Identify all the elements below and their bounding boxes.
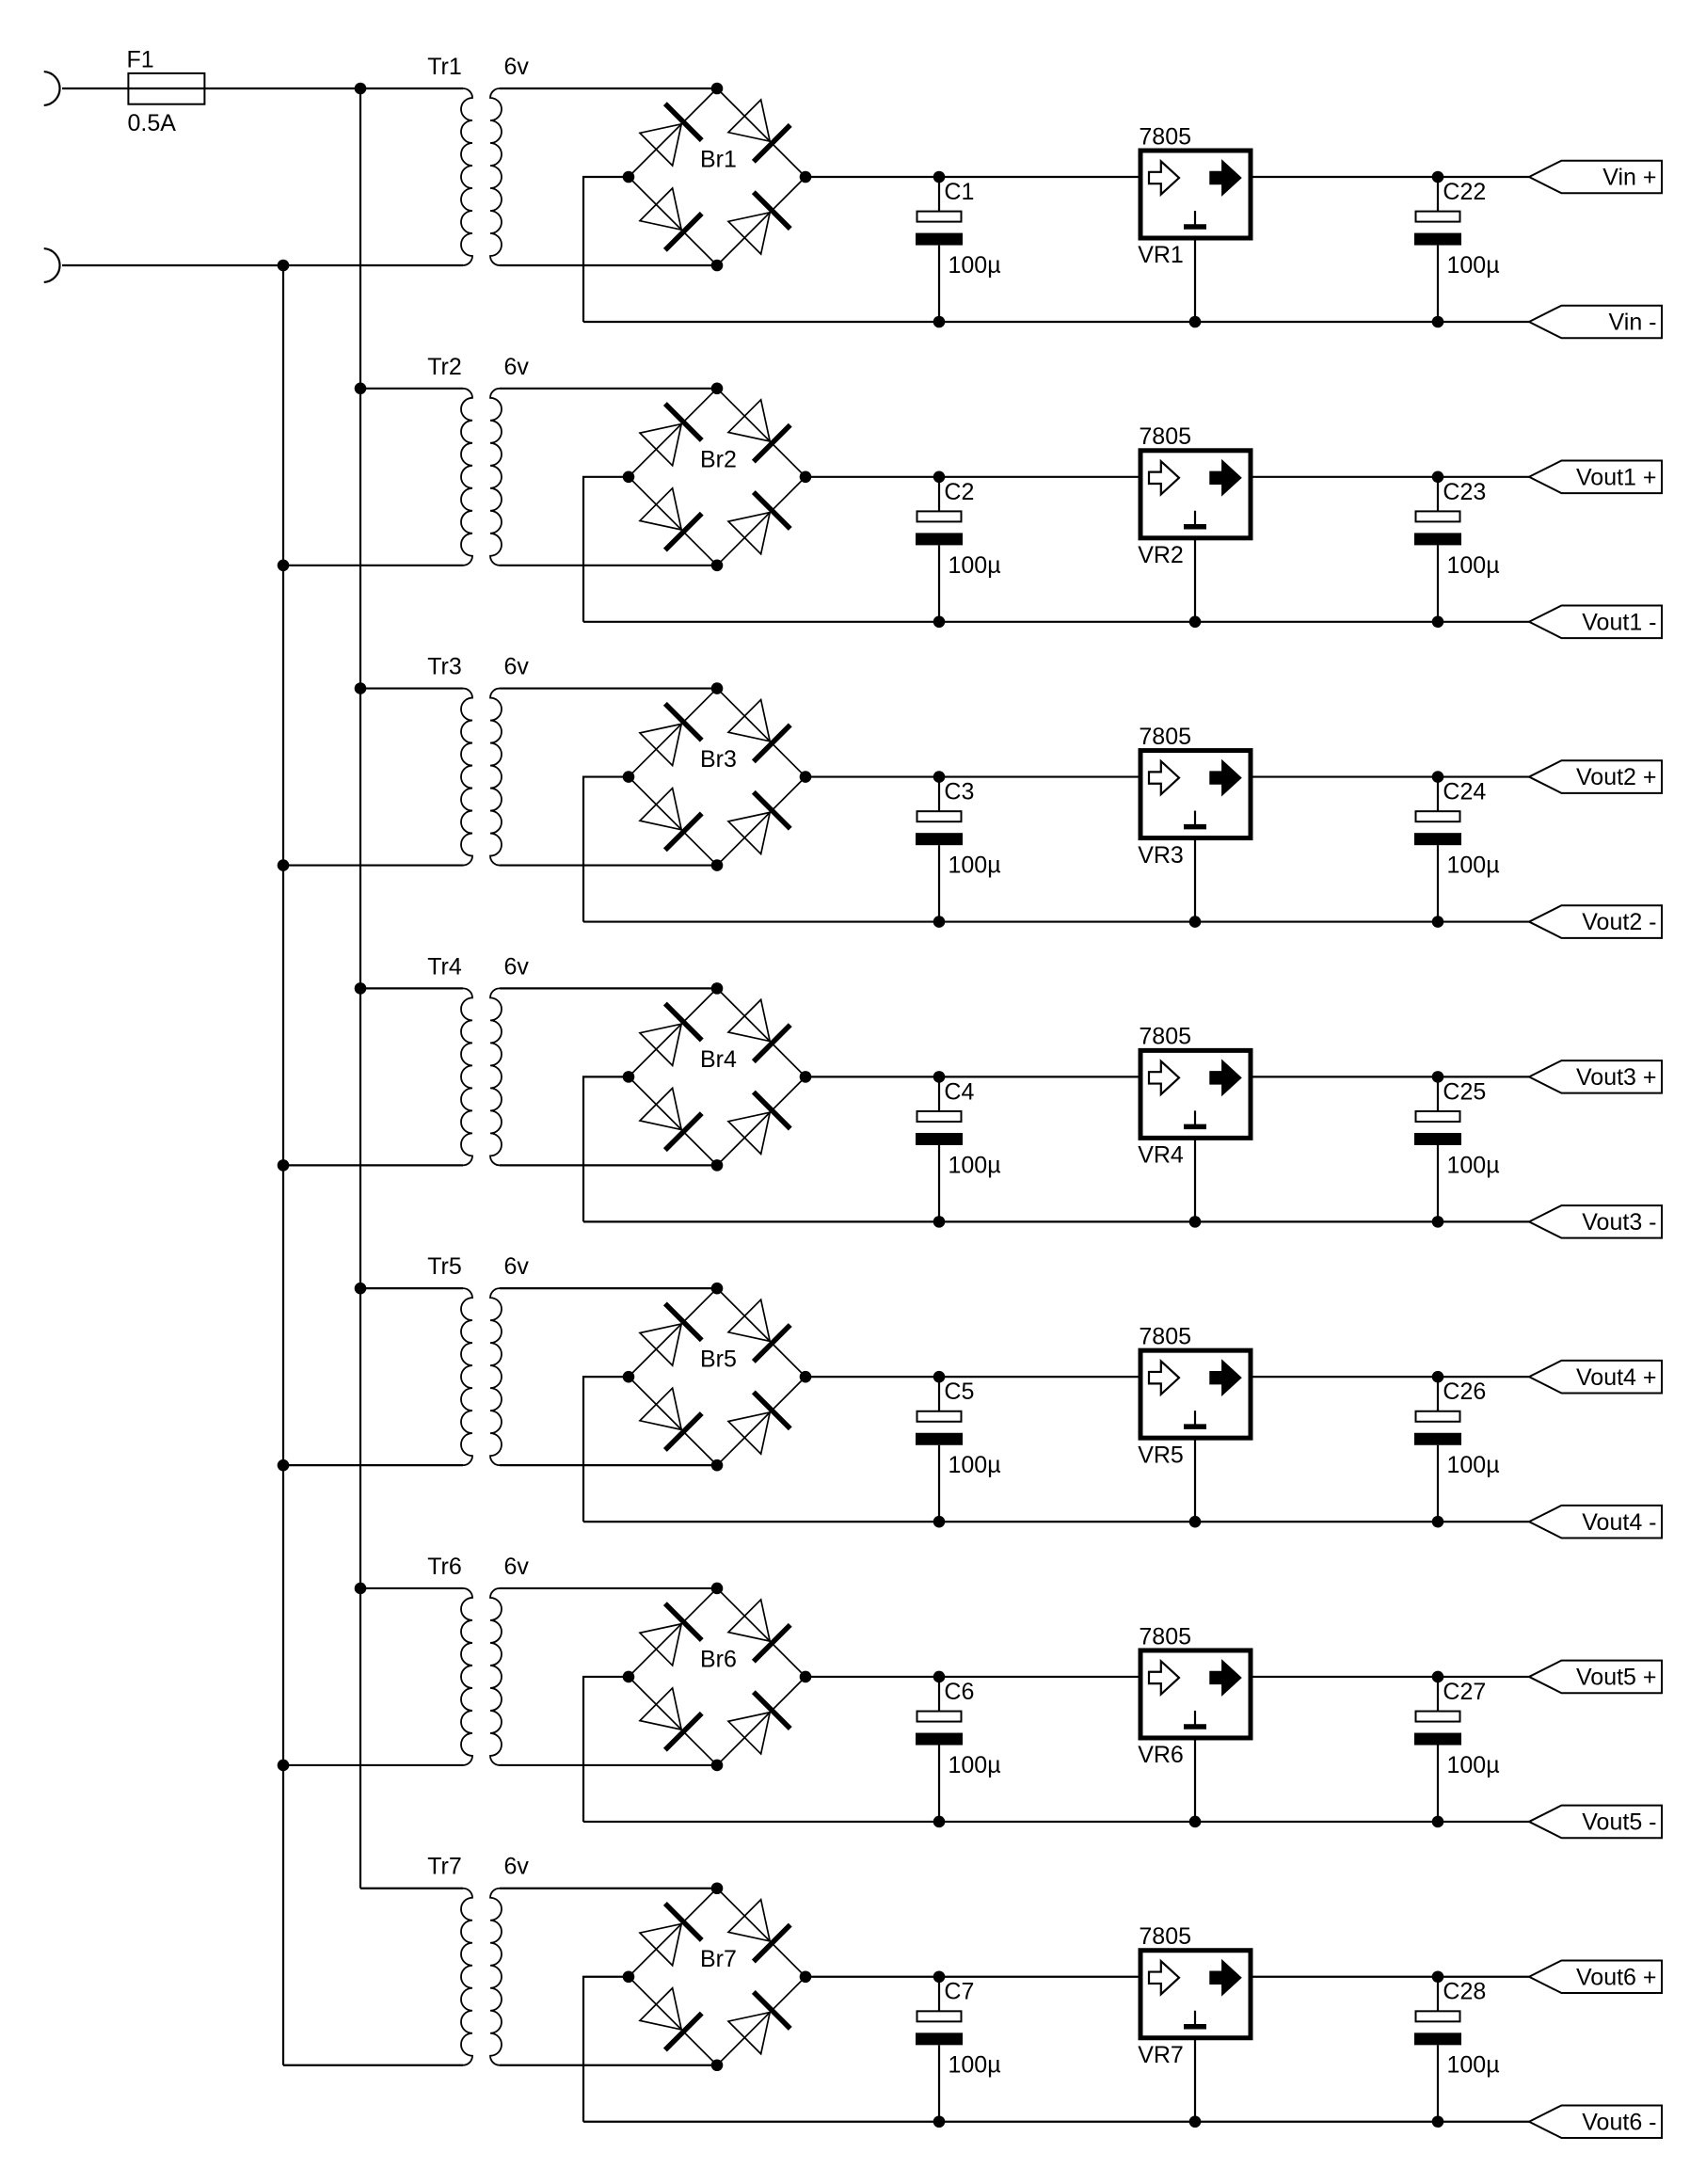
junction: C1 negative (933, 316, 946, 328)
svg-text:6v: 6v (504, 54, 530, 80)
junction: C25 negative (1432, 1216, 1444, 1228)
output terminal flag Vout2 + (1529, 760, 1662, 793)
wire: live input through fuse to Tr1 primary top (62, 88, 463, 89)
wire: DC+ rail from Br5 to regulator VR5 (805, 1376, 1141, 1378)
wire: Tr4 secondary top to bridge Br4 AC top (500, 987, 717, 989)
junction: bridge Br3 AC top (711, 682, 724, 694)
wire: Tr2 secondary bottom to bridge Br2 AC bottom (500, 565, 717, 566)
junction: bridge Br2 DC- (623, 470, 635, 483)
svg-text:Vin +: Vin + (1602, 165, 1656, 191)
svg-text:C25: C25 (1443, 1078, 1486, 1105)
voltage regulator VR5 7805 (1140, 1350, 1251, 1522)
svg-text:6v: 6v (504, 654, 530, 680)
diode Br6 bottom-left (638, 1686, 702, 1750)
junction: C7 negative (933, 2115, 946, 2128)
wire: bridge Br3 DC- down to negative rail (583, 777, 629, 922)
wire: bus to Tr4 primary bottom (283, 1164, 463, 1166)
output terminal flag Vout1 + (1529, 460, 1662, 493)
junction: C4 negative (933, 1216, 946, 1228)
bridge rectifier Br7 diamond (629, 1889, 805, 2065)
svg-text:C26: C26 (1443, 1379, 1486, 1405)
transformer Tr1 secondary winding (490, 88, 502, 265)
capacitor C27 (1414, 1677, 1461, 1822)
svg-text:Vout4 +: Vout4 + (1576, 1364, 1657, 1391)
svg-text:Tr2: Tr2 (427, 354, 462, 380)
junction: live bus / Tr3 primary top (355, 682, 367, 694)
transformer Tr5 primary winding (461, 1288, 472, 1465)
capacitor C23 (1414, 477, 1461, 622)
wire: DC+ rail from Br1 to regulator VR1 (805, 176, 1141, 178)
wire: regulator VR2 output rail (1251, 476, 1529, 478)
junction: C6 negative (933, 1816, 946, 1828)
wire: bus to Tr5 primary bottom (283, 1464, 463, 1466)
junction: C2 negative (933, 615, 946, 628)
transformer Tr2 primary winding (461, 389, 472, 566)
bridge rectifier Br2 diamond (629, 389, 805, 566)
junction: C1 positive (933, 171, 946, 183)
junction: C24 negative (1432, 916, 1444, 928)
wire: DC+ rail from Br3 to regulator VR3 (805, 775, 1141, 777)
svg-text:Br7: Br7 (700, 1946, 737, 1972)
wire: bridge Br4 DC- down to negative rail (583, 1076, 629, 1221)
svg-text:C1: C1 (944, 179, 974, 205)
transformer Tr2 secondary winding (490, 389, 502, 566)
diode Br6 top-right (726, 1598, 790, 1662)
junction: bridge Br6 AC bottom (711, 1760, 724, 1772)
junction: VR3 ground to negative rail (1189, 916, 1202, 928)
junction: live bus / Tr6 primary top (355, 1583, 367, 1595)
diode Br3 bottom-left (638, 786, 702, 850)
diode Br6 top-left (638, 1603, 702, 1667)
wire: Tr3 secondary top to bridge Br3 AC top (500, 687, 717, 689)
svg-text:Vout6 +: Vout6 + (1576, 1964, 1657, 1990)
wire: bridge Br6 DC- down to negative rail (583, 1677, 629, 1822)
output terminal flag Vout1 - (1529, 605, 1662, 638)
junction: C28 negative (1432, 2115, 1444, 2128)
junction: bridge Br7 DC- (623, 1970, 635, 1983)
svg-text:C28: C28 (1443, 1979, 1486, 2005)
junction: VR1 ground to negative rail (1189, 316, 1202, 328)
wire: bridge Br5 DC- down to negative rail (583, 1377, 629, 1522)
junction: bridge Br5 AC top (711, 1283, 724, 1295)
capacitor C6 (916, 1677, 963, 1822)
svg-text:VR6: VR6 (1138, 1742, 1184, 1768)
junction: VR6 ground to negative rail (1189, 1816, 1202, 1828)
junction: C23 negative (1432, 615, 1444, 628)
junction: bridge Br6 DC- (623, 1671, 635, 1683)
diode Br5 top-right (726, 1298, 790, 1362)
output terminal flag Vout6 - (1529, 2105, 1662, 2138)
diode Br1 bottom-right (726, 192, 790, 256)
svg-text:Vout2 -: Vout2 - (1582, 909, 1656, 935)
output terminal flag Vout5 + (1529, 1661, 1662, 1694)
wire: negative rail of channel 2 (583, 621, 1529, 623)
svg-text:VR4: VR4 (1138, 1142, 1184, 1169)
svg-text:C2: C2 (944, 479, 974, 505)
diode Br3 top-right (726, 697, 790, 761)
junction: C5 negative (933, 1516, 946, 1528)
diode Br7 top-right (726, 1898, 790, 1962)
diode Br4 bottom-right (726, 1092, 790, 1156)
voltage regulator VR4 7805 (1140, 1050, 1251, 1221)
junction: bridge Br7 AC top (711, 1882, 724, 1894)
diode Br3 bottom-right (726, 792, 790, 856)
transformer Tr6 secondary winding (490, 1588, 502, 1765)
svg-text:Tr1: Tr1 (427, 54, 462, 80)
wire: bridge Br1 DC- down to negative rail (583, 177, 629, 322)
svg-text:6v: 6v (504, 354, 530, 380)
wire: neutral vertical bus x=301 feeding all transformer primaries (282, 265, 284, 2065)
svg-text:C24: C24 (1443, 779, 1486, 805)
svg-text:7805: 7805 (1139, 123, 1191, 150)
output terminal flag Vout5 - (1529, 1806, 1662, 1839)
junction: C22 positive (1432, 171, 1444, 183)
capacitor C2 (916, 477, 963, 622)
transformer Tr6 primary winding (461, 1588, 472, 1765)
junction: live bus / Tr1 primary top (355, 83, 367, 95)
capacitor C22 (1414, 177, 1461, 322)
junction: neutral bus / Tr5 primary bottom (278, 1459, 290, 1472)
wire: negative rail of channel 4 (583, 1220, 1529, 1222)
svg-text:100µ: 100µ (1447, 252, 1500, 279)
wire: Tr1 secondary bottom to bridge Br1 AC bottom (500, 264, 717, 266)
output terminal flag Vout3 + (1529, 1060, 1662, 1093)
diode Br7 bottom-left (638, 1986, 702, 2050)
svg-text:C22: C22 (1443, 179, 1486, 205)
junction: bridge Br1 AC bottom (711, 260, 724, 272)
diode Br6 bottom-right (726, 1692, 790, 1756)
wire: live vertical bus x=383 feeding all transformer primaries (359, 88, 361, 1889)
svg-text:Br5: Br5 (700, 1347, 737, 1373)
junction: bridge Br5 AC bottom (711, 1459, 724, 1472)
wire: Tr3 secondary bottom to bridge Br3 AC bottom (500, 864, 717, 866)
junction: bridge Br2 DC+ (800, 470, 812, 483)
svg-text:100µ: 100µ (1447, 1752, 1500, 1778)
svg-text:7805: 7805 (1139, 1323, 1191, 1349)
wire: bus to Tr3 primary top (360, 687, 463, 689)
junction: bridge Br6 AC top (711, 1583, 724, 1595)
junction: C2 positive (933, 470, 946, 483)
svg-text:C4: C4 (944, 1078, 974, 1105)
voltage regulator VR2 7805 (1140, 451, 1251, 622)
wire: Tr6 secondary top to bridge Br6 AC top (500, 1587, 717, 1589)
junction: C7 positive (933, 1970, 946, 1983)
svg-text:Br4: Br4 (700, 1046, 737, 1073)
svg-text:Br1: Br1 (700, 147, 737, 173)
svg-text:Tr7: Tr7 (427, 1854, 462, 1880)
transformer Tr3 primary winding (461, 689, 472, 866)
svg-text:Vout3 +: Vout3 + (1576, 1064, 1657, 1091)
svg-text:7805: 7805 (1139, 1923, 1191, 1950)
bridge rectifier Br3 diamond (629, 689, 805, 866)
svg-text:Vout1 -: Vout1 - (1582, 609, 1656, 635)
wire: DC+ rail from Br4 to regulator VR4 (805, 1076, 1141, 1077)
wire: neutral input to Tr1 primary bottom (62, 264, 463, 266)
svg-text:7805: 7805 (1139, 1623, 1191, 1650)
svg-text:VR5: VR5 (1138, 1442, 1184, 1468)
svg-text:F1: F1 (127, 47, 154, 73)
voltage regulator VR7 7805 (1140, 1951, 1251, 2122)
svg-text:C5: C5 (944, 1379, 974, 1405)
junction: C28 positive (1432, 1970, 1444, 1983)
capacitor C25 (1414, 1076, 1461, 1221)
wire: DC+ rail from Br6 to regulator VR6 (805, 1676, 1141, 1678)
wire: regulator VR1 output rail (1251, 176, 1529, 178)
junction: C3 positive (933, 771, 946, 783)
svg-text:7805: 7805 (1139, 423, 1191, 450)
output terminal flag Vin - (1529, 306, 1662, 339)
wire: Tr5 secondary top to bridge Br5 AC top (500, 1287, 717, 1289)
diode Br2 bottom-left (638, 486, 702, 550)
fuse F1 (128, 73, 204, 104)
svg-text:100µ: 100µ (949, 1452, 1001, 1478)
wire: bus to Tr6 primary bottom (283, 1764, 463, 1766)
svg-text:7805: 7805 (1139, 724, 1191, 750)
junction: neutral bus / Tr2 primary bottom (278, 559, 290, 571)
junction: bridge Br3 DC- (623, 771, 635, 783)
output terminal flag Vout4 - (1529, 1506, 1662, 1538)
junction: bridge Br1 AC top (711, 83, 724, 95)
voltage regulator VR3 7805 (1140, 751, 1251, 922)
svg-text:100µ: 100µ (1447, 552, 1500, 579)
svg-text:100µ: 100µ (949, 1752, 1001, 1778)
diode Br3 top-left (638, 704, 702, 768)
svg-text:6v: 6v (504, 953, 530, 980)
svg-text:Tr5: Tr5 (427, 1253, 462, 1280)
svg-text:6v: 6v (504, 1554, 530, 1580)
AC input terminal (neutral) (44, 248, 60, 282)
junction: bridge Br7 AC bottom (711, 2059, 724, 2071)
svg-text:C6: C6 (944, 1679, 974, 1705)
junction: bridge Br1 DC+ (800, 171, 812, 183)
junction: neutral bus / Tr3 primary bottom (278, 859, 290, 871)
diode Br5 bottom-right (726, 1392, 790, 1456)
bridge rectifier Br6 diamond (629, 1588, 805, 1765)
transformer Tr7 secondary winding (490, 1889, 502, 2065)
wire: bus to Tr5 primary top (360, 1287, 463, 1289)
junction: live bus / Tr2 primary top (355, 382, 367, 394)
bridge rectifier Br4 diamond (629, 988, 805, 1165)
capacitor C7 (916, 1977, 963, 2122)
junction: C22 negative (1432, 316, 1444, 328)
capacitor C3 (916, 777, 963, 922)
diode Br1 top-right (726, 98, 790, 162)
junction: VR5 ground to negative rail (1189, 1516, 1202, 1528)
junction: bridge Br1 DC- (623, 171, 635, 183)
diode Br4 top-right (726, 997, 790, 1061)
wire: negative rail of channel 5 (583, 1521, 1529, 1522)
capacitor C4 (916, 1076, 963, 1221)
svg-text:Vout4 -: Vout4 - (1582, 1509, 1656, 1536)
junction: bridge Br2 AC bottom (711, 559, 724, 571)
diode Br2 bottom-right (726, 492, 790, 556)
wire: negative rail of channel 3 (583, 920, 1529, 922)
junction: VR4 ground to negative rail (1189, 1216, 1202, 1228)
transformer Tr4 primary winding (461, 988, 472, 1165)
capacitor C1 (916, 177, 963, 322)
capacitor C28 (1414, 1977, 1461, 2122)
wire: negative rail of channel 1 (583, 321, 1529, 323)
junction: C25 positive (1432, 1071, 1444, 1083)
svg-text:Vout5 +: Vout5 + (1576, 1665, 1657, 1691)
output terminal flag Vout3 - (1529, 1205, 1662, 1238)
junction: bridge Br7 DC+ (800, 1970, 812, 1983)
wire: DC+ rail from Br7 to regulator VR7 (805, 1976, 1141, 1978)
junction: neutral bus / Tr1 primary bottom (278, 260, 290, 272)
svg-text:VR3: VR3 (1138, 842, 1184, 869)
svg-text:Br2: Br2 (700, 446, 737, 472)
wire: bus to Tr6 primary top (360, 1587, 463, 1589)
svg-text:VR2: VR2 (1138, 542, 1184, 568)
svg-text:6v: 6v (504, 1854, 530, 1880)
bridge rectifier Br5 diamond (629, 1288, 805, 1465)
wire: bridge Br2 DC- down to negative rail (583, 477, 629, 622)
capacitor C26 (1414, 1377, 1461, 1522)
transformer Tr1 primary winding (461, 88, 472, 265)
svg-text:C27: C27 (1443, 1679, 1486, 1705)
junction: bridge Br4 AC top (711, 982, 724, 995)
svg-text:Vout3 -: Vout3 - (1582, 1209, 1656, 1235)
svg-text:C23: C23 (1443, 479, 1486, 505)
wire: Tr7 secondary top to bridge Br7 AC top (500, 1888, 717, 1889)
junction: VR7 ground to negative rail (1189, 2115, 1202, 2128)
wire: negative rail of channel 7 (583, 2121, 1529, 2123)
svg-text:Vout6 -: Vout6 - (1582, 2109, 1656, 2135)
svg-text:Br3: Br3 (700, 746, 737, 773)
svg-text:C3: C3 (944, 779, 974, 805)
capacitor C5 (916, 1377, 963, 1522)
diode Br5 bottom-left (638, 1386, 702, 1450)
svg-text:100µ: 100µ (949, 2052, 1001, 2079)
diode Br1 bottom-left (638, 186, 702, 250)
junction: C4 positive (933, 1071, 946, 1083)
junction: live bus / Tr5 primary top (355, 1283, 367, 1295)
junction: bridge Br5 DC- (623, 1371, 635, 1383)
wire: bus to Tr2 primary bottom (283, 565, 463, 566)
output terminal flag Vout4 + (1529, 1361, 1662, 1394)
wire: bus to Tr7 primary top (360, 1888, 463, 1889)
svg-text:0.5A: 0.5A (128, 110, 177, 136)
diode Br1 top-left (638, 104, 702, 167)
svg-text:100µ: 100µ (1447, 1452, 1500, 1478)
junction: C24 positive (1432, 771, 1444, 783)
diode Br2 top-left (638, 404, 702, 468)
transformer Tr7 primary winding (461, 1889, 472, 2065)
wire: regulator VR4 output rail (1251, 1076, 1529, 1077)
wire: bus to Tr3 primary bottom (283, 864, 463, 866)
svg-text:Tr3: Tr3 (427, 654, 462, 680)
junction: bridge Br4 DC+ (800, 1071, 812, 1083)
junction: C26 positive (1432, 1371, 1444, 1383)
svg-text:7805: 7805 (1139, 1024, 1191, 1050)
junction: C26 negative (1432, 1516, 1444, 1528)
wire: Tr4 secondary bottom to bridge Br4 AC bottom (500, 1164, 717, 1166)
junction: C5 positive (933, 1371, 946, 1383)
wire: bus to Tr4 primary top (360, 987, 463, 989)
junction: neutral bus / Tr4 primary bottom (278, 1159, 290, 1172)
wire: regulator VR6 output rail (1251, 1676, 1529, 1678)
diode Br7 bottom-right (726, 1992, 790, 2056)
AC input terminal (live) (44, 72, 60, 105)
wire: Tr1 secondary top to bridge Br1 AC top (500, 88, 717, 89)
junction: live bus / Tr4 primary top (355, 982, 367, 995)
output terminal flag Vout6 + (1529, 1960, 1662, 1993)
svg-text:Tr4: Tr4 (427, 953, 462, 980)
wire: Tr5 secondary bottom to bridge Br5 AC bottom (500, 1464, 717, 1466)
voltage regulator VR6 7805 (1140, 1650, 1251, 1822)
wire: bridge Br7 DC- down to negative rail (583, 1977, 629, 2122)
svg-text:100µ: 100µ (949, 252, 1001, 279)
svg-text:100µ: 100µ (949, 552, 1001, 579)
junction: C6 positive (933, 1671, 946, 1683)
svg-text:Vout5 -: Vout5 - (1582, 1809, 1656, 1836)
wire: bus to Tr7 primary bottom (283, 2064, 463, 2066)
junction: C27 negative (1432, 1816, 1444, 1828)
junction: C23 positive (1432, 470, 1444, 483)
junction: C3 negative (933, 916, 946, 928)
diode Br7 top-left (638, 1904, 702, 1968)
wire: regulator VR7 output rail (1251, 1976, 1529, 1978)
diode Br5 top-left (638, 1303, 702, 1367)
svg-text:100µ: 100µ (949, 853, 1001, 879)
junction: neutral bus / Tr6 primary bottom (278, 1760, 290, 1772)
wire: Tr6 secondary bottom to bridge Br6 AC bottom (500, 1764, 717, 1766)
svg-text:C7: C7 (944, 1979, 974, 2005)
junction: bridge Br4 DC- (623, 1071, 635, 1083)
svg-text:100µ: 100µ (949, 1152, 1001, 1178)
diode Br4 bottom-left (638, 1086, 702, 1150)
junction: bridge Br4 AC bottom (711, 1159, 724, 1172)
wire: Tr7 secondary bottom to bridge Br7 AC bottom (500, 2064, 717, 2066)
diode Br2 top-right (726, 398, 790, 462)
junction: bridge Br2 AC top (711, 382, 724, 394)
junction: VR2 ground to negative rail (1189, 615, 1202, 628)
svg-text:100µ: 100µ (1447, 853, 1500, 879)
output terminal flag Vin + (1529, 161, 1662, 194)
svg-text:100µ: 100µ (1447, 2052, 1500, 2079)
junction: bridge Br6 DC+ (800, 1671, 812, 1683)
junction: bridge Br3 DC+ (800, 771, 812, 783)
svg-text:Tr6: Tr6 (427, 1554, 462, 1580)
svg-text:VR7: VR7 (1138, 2042, 1184, 2068)
wire: Tr2 secondary top to bridge Br2 AC top (500, 388, 717, 390)
capacitor C24 (1414, 777, 1461, 922)
wire: bus to Tr2 primary top (360, 388, 463, 390)
transformer Tr4 secondary winding (490, 988, 502, 1165)
svg-text:Br6: Br6 (700, 1646, 737, 1672)
output terminal flag Vout2 - (1529, 905, 1662, 938)
svg-text:Vout1 +: Vout1 + (1576, 464, 1657, 490)
svg-text:Vin -: Vin - (1609, 310, 1657, 336)
transformer Tr3 secondary winding (490, 689, 502, 866)
voltage regulator VR1 7805 (1140, 151, 1251, 322)
junction: bridge Br5 DC+ (800, 1371, 812, 1383)
junction: C27 positive (1432, 1671, 1444, 1683)
svg-text:VR1: VR1 (1138, 242, 1184, 268)
svg-text:100µ: 100µ (1447, 1152, 1500, 1178)
svg-text:6v: 6v (504, 1253, 530, 1280)
wire: negative rail of channel 6 (583, 1821, 1529, 1823)
wire: regulator VR5 output rail (1251, 1376, 1529, 1378)
bridge rectifier Br1 diamond (629, 88, 805, 265)
transformer Tr5 secondary winding (490, 1288, 502, 1465)
junction: bridge Br3 AC bottom (711, 859, 724, 871)
wire: regulator VR3 output rail (1251, 775, 1529, 777)
svg-text:Vout2 +: Vout2 + (1576, 764, 1657, 790)
wire: DC+ rail from Br2 to regulator VR2 (805, 476, 1141, 478)
diode Br4 top-left (638, 1004, 702, 1068)
